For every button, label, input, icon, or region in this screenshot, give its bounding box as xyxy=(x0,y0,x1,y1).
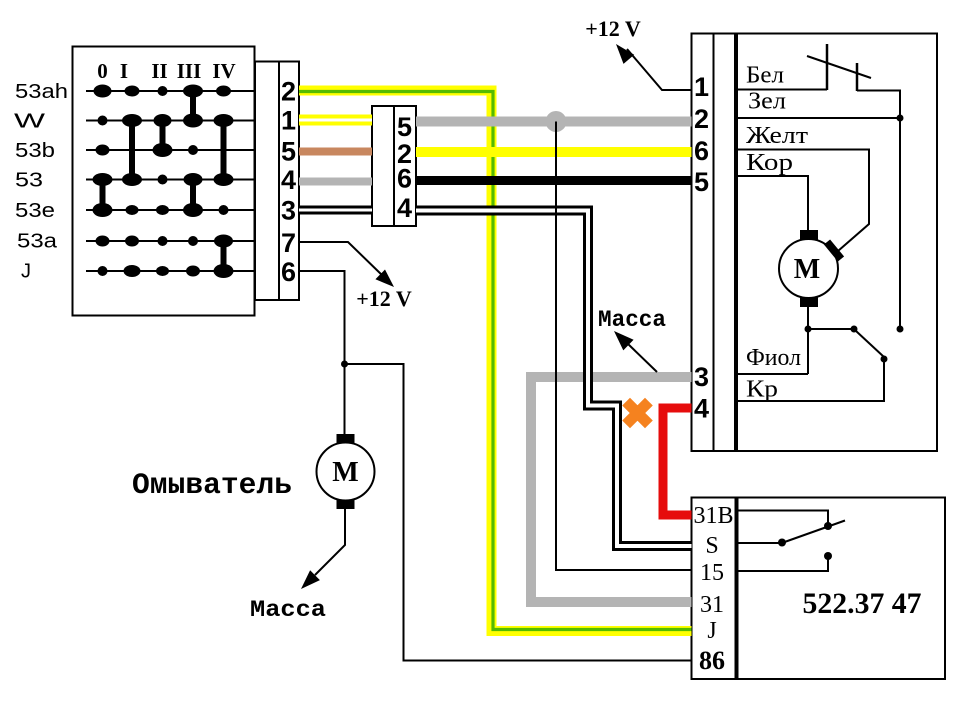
svg-text:Зел: Зел xyxy=(748,89,786,115)
wire motor bottom to node row xyxy=(807,307,809,374)
bridge IV rows 53a-J xyxy=(221,241,227,271)
svg-text:M: M xyxy=(794,254,820,285)
wiper motor unit box xyxy=(692,34,938,452)
arrowhead +12V lower xyxy=(375,270,394,288)
svg-text:+12 V: +12 V xyxy=(356,286,412,311)
svg-text:Бел: Бел xyxy=(746,63,784,89)
bridge IV rows W-53 xyxy=(221,121,227,180)
connector X2 xyxy=(372,106,416,226)
svg-text:2: 2 xyxy=(694,104,709,134)
svg-text:1: 1 xyxy=(694,72,709,102)
wire washer motor to ground xyxy=(315,509,345,575)
svg-text:+12 V: +12 V xyxy=(585,16,641,41)
relay node 31B xyxy=(824,522,832,530)
wire Фиол xyxy=(736,373,808,375)
relay switch blade xyxy=(779,521,845,545)
bridge II rows W-53b xyxy=(160,121,166,151)
svg-text:7: 7 xyxy=(281,228,296,258)
relay node 15 xyxy=(824,552,832,560)
orange cross fault mark xyxy=(630,406,645,421)
yellow-white wire X1 pin1 to X2 xyxy=(299,115,372,126)
contacts row 53a xyxy=(96,235,234,248)
black double wire X1 pin3 to X2 xyxy=(299,206,372,215)
svg-text:522.37 47: 522.37 47 xyxy=(803,587,922,620)
contact row line 53b xyxy=(86,149,279,151)
svg-text:0: 0 xyxy=(97,59,108,83)
svg-text:M: M xyxy=(332,457,358,488)
svg-text:2: 2 xyxy=(281,77,296,107)
junction node washer branch xyxy=(341,361,348,368)
svg-text:4: 4 xyxy=(397,193,412,223)
node S2 lower xyxy=(881,356,888,363)
svg-text:1: 1 xyxy=(281,106,296,136)
switch position labels 0 I II III IV xyxy=(97,59,235,83)
wire Кор xyxy=(736,176,808,231)
washer motor M2 xyxy=(337,434,355,445)
bridge I rows W-53 xyxy=(129,121,135,180)
connector X1 xyxy=(255,62,299,301)
svg-text:Фиол: Фиол xyxy=(746,345,801,371)
contacts row 53ah xyxy=(94,85,232,98)
svg-text:53ah: 53ah xyxy=(15,80,68,103)
svg-text:86: 86 xyxy=(699,646,725,675)
contact row line 53e xyxy=(86,209,279,211)
svg-text:J: J xyxy=(707,618,716,644)
svg-text:15: 15 xyxy=(700,560,724,586)
gray wire X1 pin4 to X2 xyxy=(299,178,372,186)
black wire X2 pin6 to unit pin5 xyxy=(416,176,692,185)
relay box 522.37 47 xyxy=(692,498,946,680)
svg-text:Кр: Кр xyxy=(746,377,778,403)
svg-text:S: S xyxy=(705,533,718,559)
arrow to ground gray wire xyxy=(627,343,657,372)
switch S1 contact right xyxy=(856,63,859,91)
relay 31B wire xyxy=(737,511,829,524)
svg-text:6: 6 xyxy=(694,136,709,166)
svg-text:3: 3 xyxy=(694,362,709,392)
gray wire unit pin3 to relay 31 xyxy=(531,377,692,602)
arrowhead ground washer xyxy=(301,570,320,589)
node S2 column xyxy=(897,326,904,333)
svg-text:3: 3 xyxy=(281,196,296,226)
svg-text:4: 4 xyxy=(694,394,709,424)
arrowhead +12V upper xyxy=(616,44,634,64)
bridge III rows 53-53e xyxy=(190,180,196,211)
svg-text:Масса: Масса xyxy=(598,307,666,333)
node motor bottom xyxy=(805,326,812,333)
svg-text:Омыватель: Омыватель xyxy=(132,469,292,503)
motor brush contact xyxy=(827,242,841,259)
svg-text:II: II xyxy=(151,59,167,83)
svg-text:53: 53 xyxy=(15,169,43,192)
svg-text:5: 5 xyxy=(397,112,412,142)
contact row line W xyxy=(86,120,279,122)
wire Желт xyxy=(736,150,869,252)
svg-text:53b: 53b xyxy=(15,139,55,162)
contacts row J xyxy=(98,264,234,278)
black double wire X2 pin4 to relay S xyxy=(416,211,692,547)
svg-text:6: 6 xyxy=(397,164,412,194)
wiper switch unit box xyxy=(73,47,255,316)
relay 15 wire xyxy=(737,558,829,571)
bridge III rows 53ah-W xyxy=(190,91,196,121)
contact row line 53a xyxy=(86,240,279,242)
svg-text:31B: 31B xyxy=(693,503,733,529)
svg-text:6: 6 xyxy=(281,257,296,287)
relay node S xyxy=(778,539,786,547)
wire branch to relay 86 xyxy=(345,364,692,661)
wire unit pin1 to +12V xyxy=(627,49,692,90)
contact row line 53ah xyxy=(86,90,279,92)
svg-text:Кор: Кор xyxy=(746,150,793,176)
contact row line J xyxy=(86,270,279,272)
svg-text:J: J xyxy=(21,260,31,283)
gray junction node xyxy=(546,111,567,132)
switch S2 blade xyxy=(856,331,884,357)
svg-text:4: 4 xyxy=(281,165,296,195)
svg-text:53e: 53e xyxy=(15,199,55,222)
svg-text:5: 5 xyxy=(694,167,709,197)
svg-text:I: I xyxy=(120,59,128,83)
svg-text:5: 5 xyxy=(281,137,296,167)
contacts row W xyxy=(98,114,234,128)
red wire unit pin4 to relay 31B xyxy=(663,408,692,515)
wire node row xyxy=(808,328,854,330)
bridge 0 rows 53-53e xyxy=(100,180,106,211)
switch S1 blade xyxy=(807,56,871,78)
wire Зел xyxy=(736,117,900,119)
svg-text:31: 31 xyxy=(700,592,724,618)
contacts row 53b xyxy=(96,143,199,157)
brown wire X1 pin5 to X2 xyxy=(299,148,372,156)
wire X1 pin7 to +12V xyxy=(299,242,385,278)
wire X1 pin6 to washer motor xyxy=(299,271,345,434)
relay S wire xyxy=(737,542,782,544)
svg-text:Желт: Желт xyxy=(746,123,809,149)
node Зел column xyxy=(897,115,904,122)
wire Бел xyxy=(736,89,827,91)
svg-text:IV: IV xyxy=(212,59,235,83)
wiper motor M1 xyxy=(800,230,818,240)
wire Кр xyxy=(736,359,884,401)
thin wire gray junction to relay 15 xyxy=(556,122,692,571)
contact row line 53 xyxy=(86,179,279,181)
contacts row 53 xyxy=(93,173,234,186)
svg-text:W: W xyxy=(14,110,46,133)
svg-text:Масса: Масса xyxy=(250,597,326,623)
yellow-green wire X1 pin2 to relay J xyxy=(299,91,692,632)
wire S1 to node column xyxy=(857,91,900,330)
gray wire X2 pin5 to unit pin2 xyxy=(416,117,692,127)
node S2 left xyxy=(851,326,858,333)
switch S1 contact left xyxy=(826,44,829,90)
svg-text:53a: 53a xyxy=(17,230,58,253)
yellow wire X2 pin2 to unit pin6 xyxy=(416,147,692,157)
svg-text:III: III xyxy=(177,59,202,83)
contacts row 53e xyxy=(93,203,229,217)
